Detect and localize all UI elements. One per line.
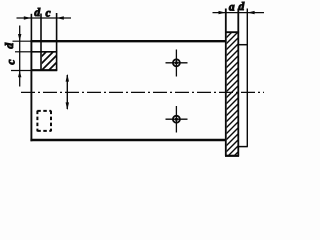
top dim left arrowhead xyxy=(24,16,31,19)
vertical double-arrow dimension xyxy=(66,75,68,109)
extension tick y=70.5 xyxy=(11,70,31,72)
svg-text:d: d xyxy=(34,7,40,19)
retaining plate bottom xyxy=(225,155,239,157)
top dimension line xyxy=(17,17,72,19)
hidden keyway (dashed rect) xyxy=(37,111,51,132)
retaining plate top xyxy=(225,31,239,33)
horizontal centerline (dash-dot) xyxy=(21,91,264,93)
upper hole mark: ring xyxy=(173,59,180,66)
right dim left arrowhead xyxy=(219,11,226,14)
svg-text:a: a xyxy=(229,2,235,14)
body bottom edge xyxy=(30,139,226,142)
left dim lower arrowhead (up) xyxy=(18,71,21,78)
extension tick y=41 xyxy=(13,40,31,42)
top dim right arrowhead xyxy=(57,16,64,19)
body top edge xyxy=(30,40,226,42)
lower hole mark: crosshair horizontal xyxy=(166,118,188,120)
bottom connector line xyxy=(239,146,248,148)
key top line xyxy=(31,51,58,53)
retaining plate left wall (with extension to dim) xyxy=(225,9,227,156)
keyway right wall (extension line to top dim) xyxy=(56,13,58,71)
right dim right arrowhead xyxy=(247,11,254,14)
left dimension line xyxy=(19,26,21,87)
lower hole mark: ring xyxy=(173,116,180,123)
upper hole mark: center dot xyxy=(175,61,178,64)
upper hole mark: crosshair horizontal xyxy=(166,62,188,64)
svg-text:c: c xyxy=(45,7,50,19)
svg-text:c: c xyxy=(5,59,17,64)
retaining plate hatching xyxy=(216,16,248,192)
top connector line xyxy=(239,44,248,46)
extension tick y=51.8 xyxy=(15,51,31,53)
shaft end outline (with extension to dim) xyxy=(246,9,248,147)
key section hatching xyxy=(8,38,88,90)
double-arrow top head (up) xyxy=(66,74,69,82)
lower hole mark: crosshair vertical xyxy=(175,106,177,133)
right dimension line xyxy=(213,12,265,14)
lower hole mark: center dot xyxy=(175,118,178,121)
svg-text:d: d xyxy=(4,43,16,49)
left dim upper arrowhead (down) xyxy=(18,34,21,41)
retaining plate right wall (with extension to dim) xyxy=(237,9,239,156)
key bottom line xyxy=(31,69,58,71)
body left edge xyxy=(30,40,32,141)
upper hole mark: crosshair vertical xyxy=(175,50,177,77)
keyway left wall (extension line to top dim) xyxy=(40,14,42,71)
double-arrow bottom head (down) xyxy=(66,102,69,110)
svg-text:d: d xyxy=(239,1,245,13)
body left edge extension to top dim xyxy=(30,14,32,41)
